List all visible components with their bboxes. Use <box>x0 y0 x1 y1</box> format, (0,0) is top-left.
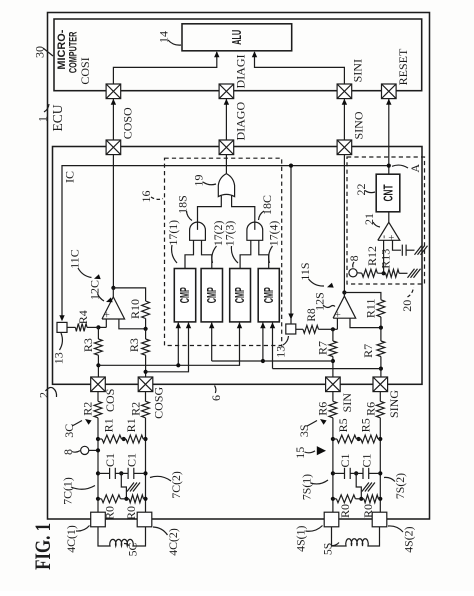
svg-text:7S(2): 7S(2) <box>393 473 407 499</box>
wire 12C inverting input <box>119 319 146 329</box>
node A junction right <box>387 164 391 168</box>
capacitor C1 pair row <box>96 471 100 475</box>
resistor R7 right <box>377 341 385 357</box>
resistor R8 <box>303 325 319 333</box>
wire R3 to COS pad <box>97 355 99 377</box>
svg-text:11S: 11S <box>298 262 312 280</box>
svg-text:CNT: CNT <box>381 184 395 201</box>
resistor R1 left <box>102 435 122 443</box>
svg-text:R6: R6 <box>315 402 329 416</box>
svg-text:R10: R10 <box>128 299 142 319</box>
capacitor C1 pair row sin <box>331 471 335 475</box>
svg-text:19: 19 <box>192 175 206 187</box>
svg-text:3S: 3S <box>297 424 311 437</box>
node 12C output <box>111 286 115 290</box>
wire 21 inverting input <box>383 240 385 273</box>
svg-text:DIAGO: DIAGO <box>234 102 248 141</box>
svg-text:SIN: SIN <box>340 393 354 413</box>
wire R3 to COSG pad <box>145 355 147 377</box>
wire 8 to R12 <box>357 272 362 274</box>
counter CNT 22 <box>376 174 400 212</box>
capacitor C1 left sin <box>333 472 345 474</box>
ALU box 14 <box>182 24 292 51</box>
wire node to R3 right <box>145 329 147 339</box>
svg-text:4C(2): 4C(2) <box>166 528 180 556</box>
resistor R0 left <box>102 495 121 503</box>
pad RESET <box>382 84 397 99</box>
resistor R13 <box>386 269 400 277</box>
wire terminal13 to R4 <box>67 326 75 328</box>
svg-text:R3: R3 <box>127 338 141 352</box>
ground at C1 midpoint sin <box>362 483 375 492</box>
wire SINO to SINI <box>343 99 345 140</box>
resistor R5 pair row <box>331 437 335 441</box>
pad SINO <box>337 140 352 155</box>
wire SINI to ALU <box>255 52 345 84</box>
svg-text:R2: R2 <box>128 402 142 416</box>
svg-text:SING: SING <box>387 390 401 418</box>
node 12S output <box>342 290 346 294</box>
resistor R3 left <box>95 339 103 355</box>
terminal circle 8 left <box>81 446 89 454</box>
pad 4S(2) <box>372 512 387 527</box>
wire node to R7 right <box>380 328 382 341</box>
leader 12S <box>323 305 335 307</box>
wire R10 to node <box>145 319 147 329</box>
svg-text:20: 20 <box>400 300 414 312</box>
wire 12S feedback to R11 <box>344 293 381 300</box>
wire R8 to node <box>319 328 333 330</box>
ground at R13 <box>408 269 421 278</box>
svg-text:FIG. 1: FIG. 1 <box>30 523 55 570</box>
resistor R6 left <box>329 401 337 418</box>
resistor R10 <box>142 301 150 319</box>
comparator CMP 17(4) <box>258 269 279 322</box>
svg-text:R0: R0 <box>338 504 352 518</box>
wire 12S noninverting input <box>336 318 338 329</box>
svg-text:R0: R0 <box>124 506 138 520</box>
resistor R0 right <box>129 495 144 503</box>
wire COSI to ALU <box>113 52 216 84</box>
node R10/R3 junction <box>144 327 148 331</box>
resistor R1 right <box>126 435 143 443</box>
resistor R7 left <box>329 341 337 357</box>
wire net A <box>62 166 389 316</box>
svg-text:RESET: RESET <box>396 48 410 85</box>
resistor R0 right sin <box>364 495 379 503</box>
svg-text:R1: R1 <box>124 418 138 432</box>
node tap 8 <box>96 448 100 452</box>
resistor R1 pair row <box>96 437 100 441</box>
wire COSO to op-amp 12C output <box>112 155 114 288</box>
ground between C1 mid and R0 mid sin <box>356 473 361 498</box>
AND gate 18S <box>190 222 206 240</box>
arrow into CMP3 <box>237 322 242 328</box>
svg-text:7S(1): 7S(1) <box>300 474 314 500</box>
svg-text:6: 6 <box>209 395 223 401</box>
ground at C1 midpoint <box>127 483 140 492</box>
svg-text:R6: R6 <box>363 402 377 416</box>
wire 12C noninverting input <box>105 319 107 327</box>
svg-text:R0: R0 <box>361 504 375 518</box>
dashed box 20 (A) counter block <box>347 157 425 284</box>
wire 21 noninverting input <box>393 240 402 250</box>
svg-text:1: 1 <box>36 116 50 122</box>
svg-text:+: + <box>102 311 114 317</box>
resistor R0 left sin <box>336 495 355 503</box>
svg-text:C1: C1 <box>338 453 352 467</box>
wire rail to CMP1 left input <box>177 323 179 366</box>
wire R13 to ground <box>399 272 407 274</box>
resistor R0 pair row sin <box>331 497 335 501</box>
rail SING to CMP4 right input <box>273 368 381 370</box>
comparator CMP 17(3) <box>230 269 251 322</box>
svg-text:17(4): 17(4) <box>267 221 281 247</box>
svg-text:C1: C1 <box>360 453 374 467</box>
svg-text:DIAGI: DIAGI <box>233 55 247 89</box>
svg-text:R4: R4 <box>76 310 90 324</box>
svg-text:COSG: COSG <box>151 386 165 418</box>
svg-text:18S: 18S <box>175 195 189 214</box>
pad DIAGO <box>219 140 234 155</box>
AND 18C input legs <box>240 240 251 268</box>
svg-text:13: 13 <box>51 352 65 364</box>
resistor R4 <box>75 324 87 332</box>
svg-text:5S: 5S <box>320 543 334 555</box>
arrow into terminal 13 left <box>59 315 64 321</box>
COS rail left <box>97 392 99 402</box>
svg-text:SINO: SINO <box>351 111 365 139</box>
svg-text:+: + <box>333 311 345 317</box>
wire 12S inverting input <box>350 318 381 327</box>
svg-text:13: 13 <box>274 346 288 358</box>
node COSG <box>144 370 148 374</box>
svg-text:2: 2 <box>37 392 51 398</box>
pad SING <box>373 377 388 392</box>
AND 18S input legs <box>185 240 194 268</box>
arrow into ALU right <box>252 51 257 57</box>
node COS <box>96 363 100 367</box>
resistor R3 right <box>142 339 150 355</box>
wire R4 to node <box>87 326 98 328</box>
coil 5S <box>332 527 380 546</box>
svg-text:ALU: ALU <box>230 30 244 45</box>
node SING <box>379 367 383 371</box>
pad COSI <box>106 84 121 99</box>
svg-text:22: 22 <box>354 184 368 196</box>
IC box 2 <box>53 147 423 385</box>
capacitor at 21 input <box>401 245 403 256</box>
svg-text:COSI: COSI <box>78 57 92 84</box>
svg-text:17(1): 17(1) <box>166 220 180 246</box>
capacitor C1 right sin <box>356 472 363 474</box>
AND gate 18C <box>247 222 263 240</box>
op-amp 12C <box>102 297 125 319</box>
svg-text:SINI: SINI <box>350 59 364 82</box>
resistor R0 pair row <box>96 497 100 501</box>
pointer arrow 15 <box>317 446 326 455</box>
svg-text:17(3): 17(3) <box>223 221 237 247</box>
resistor R6 right <box>376 401 384 418</box>
OR gate 19 <box>218 174 234 197</box>
terminal circle 8 right <box>349 269 357 277</box>
terminal square 13 right <box>286 324 296 334</box>
svg-text:16: 16 <box>139 191 153 203</box>
svg-text:R5: R5 <box>359 418 373 432</box>
SING rail right <box>379 392 381 402</box>
wire DIAGO to DIAGI <box>225 99 227 140</box>
pad 4S(1) <box>324 512 339 527</box>
resistor R5 right <box>361 435 378 443</box>
arrow into terminal 13 right <box>288 314 293 320</box>
node A junction mid <box>289 164 293 168</box>
pad DIAGI <box>219 84 234 99</box>
wire rail to CMP4 left input <box>262 323 264 361</box>
svg-text:12S: 12S <box>313 292 327 311</box>
node R12/R13 <box>382 271 386 275</box>
svg-text:CMP: CMP <box>262 287 276 303</box>
svg-text:R8: R8 <box>306 308 318 322</box>
pad 4C(2) <box>137 512 152 527</box>
svg-text:3C: 3C <box>62 424 76 438</box>
arrow into CMP2 <box>209 322 214 328</box>
comparator CMP 17(1) <box>174 269 195 322</box>
svg-text:CMP: CMP <box>233 287 247 303</box>
svg-text:R12: R12 <box>365 246 379 266</box>
wire R7 to SIN pad <box>332 357 334 378</box>
wire node to R7 left <box>332 329 334 341</box>
microcomputer box 30 <box>54 19 422 91</box>
capacitor C1 left <box>98 472 110 474</box>
svg-text:IC: IC <box>63 171 77 183</box>
svg-text:CMP: CMP <box>178 287 192 303</box>
SIN rail left <box>332 392 334 402</box>
terminal square 13 left <box>57 322 67 332</box>
arrow into ALU left <box>214 51 219 57</box>
node R11/R7 junction <box>379 326 383 330</box>
resistor R5 left <box>337 435 357 443</box>
wire OR output to DIAGO <box>225 155 227 174</box>
AND outputs to OR gate 19 <box>198 196 222 230</box>
svg-text:+: + <box>387 234 398 240</box>
pad 4C(1) <box>91 512 106 527</box>
wire CNT to RESET <box>388 99 390 174</box>
pad SIN <box>326 377 341 392</box>
svg-text:30: 30 <box>33 46 47 58</box>
wire to terminal 13 right <box>290 166 292 324</box>
rail COSG to CMP1 right input <box>146 323 189 372</box>
svg-text:11C: 11C <box>68 249 82 269</box>
resistor R12 <box>362 269 378 277</box>
wire R11 to node <box>380 317 382 328</box>
comparator 21 <box>378 222 400 240</box>
svg-text:MICRO-: MICRO- <box>56 29 68 69</box>
svg-text:ECU: ECU <box>50 104 65 131</box>
node R4/R3 junction <box>96 325 100 329</box>
ground between C1 mid and R0 mid <box>121 473 126 498</box>
wire terminal13 to R8 <box>296 328 303 330</box>
svg-text:4S(2): 4S(2) <box>401 526 415 552</box>
ground at 21 input cap <box>415 246 428 255</box>
node SIN <box>331 359 335 363</box>
wire 12C feedback to R10 <box>113 288 145 301</box>
arrow 12C <box>106 297 113 302</box>
resistor R2 left <box>94 401 102 418</box>
svg-text:COS: COS <box>103 389 117 412</box>
svg-text:7C(2): 7C(2) <box>169 471 183 499</box>
svg-text:R1: R1 <box>102 418 116 432</box>
ECU box 1 <box>48 13 430 520</box>
rail COS to CMP inputs <box>98 323 239 366</box>
svg-text:R2: R2 <box>80 402 94 416</box>
svg-text:R0: R0 <box>103 506 117 520</box>
comparator CMP 17(2) <box>201 269 222 322</box>
rail SIN to CMP inputs <box>212 360 333 362</box>
wire R7 to SING pad <box>380 357 382 378</box>
svg-text:R5: R5 <box>336 418 350 432</box>
pad COSG <box>138 377 153 392</box>
svg-text:8: 8 <box>347 255 361 261</box>
svg-text:R7: R7 <box>361 344 375 358</box>
wire node to R3 left <box>97 327 99 339</box>
svg-text:C1: C1 <box>124 453 138 467</box>
svg-text:R13: R13 <box>379 249 393 269</box>
svg-text:7C(1): 7C(1) <box>60 477 74 505</box>
coil 5C <box>98 527 146 546</box>
svg-text:C1: C1 <box>103 453 117 467</box>
svg-text:R3: R3 <box>81 338 95 352</box>
pad COSO <box>106 140 121 155</box>
svg-text:4C(1): 4C(1) <box>64 525 78 553</box>
svg-text:COSO: COSO <box>120 107 134 139</box>
wire SINO to op-amp 12S output <box>343 155 345 293</box>
svg-text:CMP: CMP <box>205 287 219 303</box>
svg-text:4S(1): 4S(1) <box>293 526 307 552</box>
resistor R2 right <box>142 401 150 418</box>
svg-text:R11: R11 <box>364 299 378 319</box>
COSG rail right <box>145 392 147 402</box>
resistor R11 <box>377 300 385 317</box>
wire COSO to COSI <box>112 99 114 140</box>
pad COS <box>91 377 106 392</box>
pad SINI <box>337 84 352 99</box>
svg-text:A: A <box>408 164 422 173</box>
node R8/R7 junction <box>331 327 335 331</box>
op-amp 12S <box>333 296 356 318</box>
capacitor C1 right <box>121 472 128 474</box>
svg-text:R7: R7 <box>315 341 329 355</box>
dashed box 16 comparator block <box>165 158 282 345</box>
